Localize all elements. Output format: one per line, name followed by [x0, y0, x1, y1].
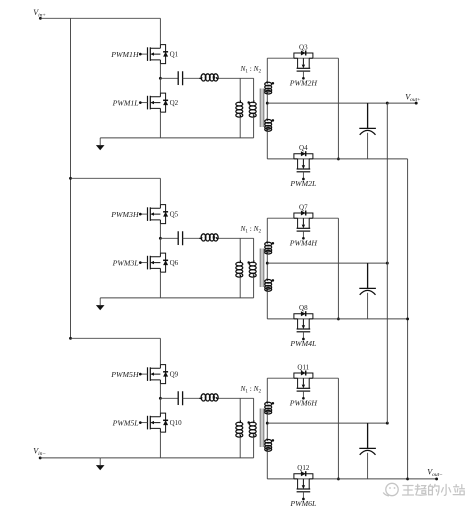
inductor resonant L phase 1	[199, 74, 218, 81]
wire center tap to Vout+ rail	[267, 262, 387, 264]
transistor Q5	[139, 205, 168, 224]
svg-text:PWM3L: PWM3L	[112, 258, 139, 267]
svg-text:Q9: Q9	[170, 371, 179, 379]
wire center tap to Vout+ rail	[267, 422, 387, 424]
node switch node phase 3	[159, 397, 162, 400]
svg-text:PWM5H: PWM5H	[110, 370, 139, 379]
wire return phase 2	[100, 297, 253, 299]
node Vin+ terminal	[39, 17, 42, 20]
svg-text:N1 : N2: N1 : N2	[239, 224, 261, 235]
inductor resonant L phase 2	[199, 234, 218, 241]
node Vout+ rail junction phase 3	[386, 422, 389, 425]
svg-text:PWM1L: PWM1L	[112, 98, 139, 107]
svg-text:PWM4H: PWM4H	[289, 239, 318, 248]
wire Vout- rail	[407, 159, 409, 479]
core T3	[260, 409, 262, 448]
transistor Q10	[139, 413, 168, 432]
wire Q6 source to return	[159, 272, 161, 298]
wire Q5 source to switch node	[159, 224, 161, 239]
node secondary upper polarity dot T3	[272, 402, 275, 405]
wire switch node to Q6 drain	[159, 238, 161, 253]
svg-text:Q3: Q3	[299, 43, 308, 51]
watermark logo	[383, 483, 398, 496]
node rectifier common junction phase 1	[337, 157, 340, 160]
inductor secondary winding lower T3	[265, 438, 272, 451]
svg-text:PWM4L: PWM4L	[289, 339, 316, 348]
wire inductor to transformer primary	[219, 397, 254, 399]
core T2	[260, 249, 262, 288]
inductor primary winding T3	[253, 398, 255, 420]
wire secondary center tap	[266, 94, 268, 118]
svg-text:Q2: Q2	[170, 99, 179, 107]
wire cap to resonant inductor	[183, 397, 200, 399]
inductor primary winding T2	[253, 238, 255, 260]
wire switch node to Q2 drain	[159, 78, 161, 93]
wire Q9 source to switch node	[159, 384, 161, 399]
node primary winding polarity dot T3	[247, 421, 250, 424]
svg-text:Q4: Q4	[299, 144, 308, 152]
wire center tap to Vout+ rail	[267, 102, 387, 104]
svg-text:Q1: Q1	[170, 51, 179, 59]
ground phase 1	[96, 138, 105, 150]
wire Q11 to common junction	[337, 378, 339, 479]
transistor Q1	[139, 45, 168, 64]
svg-text:Q11: Q11	[297, 363, 309, 371]
node Vout+ rail junction phase 2	[386, 262, 389, 265]
wire inductor to transformer primary	[219, 77, 254, 79]
wire secondary top to Q3	[267, 57, 338, 59]
node Vout+ terminal	[415, 102, 418, 105]
wire Vout+ terminal lead	[387, 102, 416, 104]
node Vout- rail junction phase 2	[406, 317, 409, 320]
wire Q9 drain	[159, 338, 161, 364]
node Vout- rail junction phase 3	[406, 477, 409, 480]
inductor secondary winding upper T3	[266, 378, 268, 401]
wire return phase 1	[100, 137, 253, 139]
svg-text:Q8: Q8	[299, 304, 308, 312]
svg-text:PWM3H: PWM3H	[110, 210, 139, 219]
wire switch node to blocking cap	[160, 237, 178, 239]
transistor Q2	[139, 93, 168, 112]
node secondary lower polarity dot T3	[272, 439, 275, 442]
wire secondary bottom through Q12 to Vout- rail	[267, 478, 407, 480]
svg-text:PWM1H: PWM1H	[110, 50, 139, 59]
inductor magnetizing winding T2	[239, 238, 241, 260]
inductor secondary winding upper T2	[266, 218, 268, 241]
transistor Q6	[139, 253, 168, 272]
transistor Q9	[139, 365, 168, 384]
svg-text:N1 : N2: N1 : N2	[239, 64, 261, 75]
inductor secondary winding lower T1	[265, 118, 272, 131]
wire secondary top to Q11	[267, 377, 338, 379]
capacitor blocking cap phase 2	[178, 231, 182, 245]
svg-text:Q10: Q10	[170, 419, 183, 427]
capacitor blocking cap phase 3	[178, 391, 182, 405]
node switch node phase 2	[159, 237, 162, 240]
wire secondary center tap	[266, 254, 268, 278]
node primary winding polarity dot T1	[247, 101, 250, 104]
wire Q10 source to return	[159, 432, 161, 458]
transistor Q12	[294, 471, 313, 500]
transistor Q4	[294, 151, 313, 180]
node center tap T2	[266, 262, 269, 265]
wire input rail (left vertical bus)	[70, 18, 72, 338]
wire secondary bottom through Q8 to Vout- rail	[267, 318, 407, 320]
inductor resonant L phase 3	[199, 394, 218, 401]
wire Q5 drain	[159, 178, 161, 204]
node center tap T1	[266, 102, 269, 105]
node Vout+ rail junction phase 1	[386, 102, 389, 105]
node rectifier common junction phase 2	[337, 317, 340, 320]
capacitor output cap phase 2	[359, 263, 376, 319]
transistor Q3	[294, 51, 313, 80]
inductor secondary winding lower T2	[265, 278, 272, 291]
ground phase 2	[96, 298, 105, 310]
wire Q7 to common junction	[337, 218, 339, 319]
wire top rail phase 3	[71, 337, 161, 339]
wire Vin- to phase3 return	[40, 457, 100, 459]
wire Q1 source to switch node	[159, 64, 161, 79]
transistor Q7	[294, 211, 313, 240]
wire top rail phase 2	[71, 177, 161, 179]
node center tap T3	[266, 422, 269, 425]
wire secondary top to Q7	[267, 217, 338, 219]
wire Vout+ rail	[386, 103, 388, 423]
wire secondary center tap	[266, 414, 268, 438]
wire cap to resonant inductor	[183, 77, 200, 79]
node Vout- terminal	[435, 477, 438, 480]
svg-text:Q7: Q7	[299, 203, 308, 211]
wire cap to resonant inductor	[183, 237, 200, 239]
wire secondary bottom through Q4 to Vout- rail	[267, 158, 407, 160]
wire switch node to Q10 drain	[159, 398, 161, 413]
svg-text:PWM2H: PWM2H	[289, 79, 318, 88]
node secondary upper polarity dot T2	[272, 242, 275, 245]
inductor magnetizing winding T1	[239, 78, 241, 100]
watermark text (vector strokes, CJK-safe)	[403, 484, 465, 495]
node input rail junction phase 2	[69, 177, 72, 180]
node primary winding polarity dot T2	[247, 261, 250, 264]
svg-text:Q12: Q12	[297, 464, 310, 472]
wire Vin+ to input rail	[40, 17, 70, 19]
wire return phase 3	[100, 457, 253, 459]
capacitor output cap phase 1	[359, 103, 376, 159]
wire switch node to blocking cap	[160, 397, 178, 399]
node Vin- terminal	[39, 456, 42, 459]
core T1	[260, 89, 262, 128]
node secondary lower polarity dot T2	[272, 279, 275, 282]
node input rail junction phase 3	[69, 337, 72, 340]
svg-text:N1 : N2: N1 : N2	[239, 384, 261, 395]
inductor magnetizing winding T3	[239, 398, 241, 420]
svg-text:PWM2L: PWM2L	[289, 179, 316, 188]
inductor secondary winding upper T1	[266, 58, 268, 81]
capacitor blocking cap phase 1	[178, 71, 182, 85]
ground phase 3	[96, 458, 105, 470]
node rectifier common junction phase 3	[337, 477, 340, 480]
capacitor output cap phase 3	[359, 423, 376, 479]
wire inductor to transformer primary	[219, 237, 254, 239]
svg-text:PWM5L: PWM5L	[112, 418, 139, 427]
wire Q2 source to return	[159, 112, 161, 138]
svg-text:Q6: Q6	[170, 259, 179, 267]
wire switch node to blocking cap	[160, 77, 178, 79]
transistor Q8	[294, 311, 313, 340]
wire top rail phase 1	[71, 17, 161, 19]
transistor Q11	[294, 371, 313, 400]
node switch node phase 1	[159, 77, 162, 80]
svg-text:PWM6H: PWM6H	[289, 399, 318, 408]
inductor primary winding T1	[253, 78, 255, 100]
node secondary lower polarity dot T1	[272, 119, 275, 122]
svg-text:PWM6L: PWM6L	[289, 499, 316, 508]
node secondary upper polarity dot T1	[272, 82, 275, 85]
wire Q1 drain	[159, 18, 161, 44]
svg-text:Q5: Q5	[170, 211, 179, 219]
wire Q3 to common junction	[337, 58, 339, 159]
wire Vout- terminal lead	[408, 478, 437, 480]
